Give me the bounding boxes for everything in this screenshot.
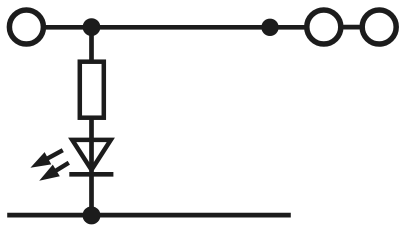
LED D1 triangle	[72, 140, 111, 170]
wire bottom rail	[7, 213, 291, 218]
wire top rail	[44, 25, 306, 30]
LED D1 cathode bar	[69, 172, 113, 177]
node junction top	[83, 18, 101, 36]
wire between right terminals	[341, 25, 362, 30]
node junction bottom	[83, 206, 101, 224]
node junction right	[261, 19, 278, 36]
terminal circle left	[9, 10, 43, 44]
resistor R1	[80, 62, 104, 118]
terminal circle far-right	[362, 10, 396, 44]
wire vertical stem	[89, 25, 94, 215]
LED light arrow upper	[30, 150, 62, 168]
LED light arrow lower	[39, 163, 69, 181]
terminal circle middle-right	[307, 10, 341, 44]
